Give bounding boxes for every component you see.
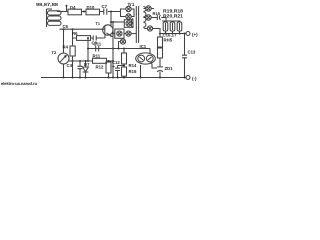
capacitor C9	[92, 36, 98, 46]
wire vertical bus x113	[112, 22, 114, 78]
svg-text:R15: R15	[129, 69, 137, 74]
transistor T1	[96, 12, 114, 37]
svg-text:R19,R18: R19,R18	[163, 8, 183, 13]
wire primary feed	[121, 9, 126, 17]
node junction rail2-R6	[72, 28, 74, 30]
resistor R11	[93, 54, 107, 64]
node junction mid rail x124	[123, 48, 125, 50]
wire fuse feed	[113, 33, 115, 35]
transformer primary terminal P2	[126, 14, 131, 19]
node junction x80 y60	[79, 60, 81, 62]
transformer terminal P5	[126, 31, 131, 36]
transistor T2	[52, 50, 70, 64]
svg-text:T2: T2	[52, 50, 57, 55]
node dots on plus rail	[159, 33, 186, 35]
wire T2 bottom	[63, 64, 65, 78]
resistor R16	[158, 47, 163, 58]
capacitor bank C21	[177, 22, 182, 31]
svg-text:R14: R14	[129, 63, 137, 68]
resistor D10	[86, 5, 100, 15]
svg-text:C6: C6	[63, 24, 69, 29]
capacitor C4	[67, 61, 83, 78]
node junction x113 y47.5	[112, 48, 114, 50]
node junction x88 y60	[87, 60, 89, 62]
resistor RH5	[158, 34, 173, 48]
wire S2 to cap	[144, 17, 158, 19]
transformer primary terminal P3	[126, 21, 131, 26]
node dots on bottom rail	[63, 77, 186, 79]
wire R6 branch	[73, 29, 106, 38]
transformer core	[136, 6, 138, 43]
capacitor C7	[102, 4, 108, 15]
capacitor C11	[94, 42, 102, 52]
capacitor bank C19	[163, 22, 168, 31]
transformer secondary terminal S1	[146, 6, 151, 11]
node junction x124 y65.5	[123, 65, 125, 67]
svg-text:98,87,88: 98,87,88	[36, 2, 59, 7]
fuse box with terminal	[115, 29, 124, 38]
transformer secondary terminal S2	[146, 15, 151, 20]
svg-text:R20,R21: R20,R21	[163, 14, 183, 19]
capacitor C14 polarized	[157, 15, 160, 20]
wire T1 collector to tap box	[111, 21, 124, 23]
svg-text:C12: C12	[112, 60, 120, 65]
capacitor C12	[112, 60, 121, 78]
capacitor ZD1 polarized	[157, 58, 173, 78]
svg-text:(-): (-)	[192, 76, 197, 81]
svg-text:R18: R18	[153, 11, 161, 16]
wire rectifier top rail	[162, 21, 181, 22]
terminal output minus	[186, 76, 197, 81]
wire x88 branch	[87, 38, 89, 61]
transformer secondary winding arcs	[143, 7, 146, 28]
node junction x113 y61	[112, 60, 114, 62]
svg-text:C11: C11	[94, 42, 102, 47]
node stub A	[66, 5, 68, 12]
transformer tap selector box	[124, 20, 133, 28]
wire P6 to mid bus	[119, 42, 121, 49]
resistor R6	[72, 31, 91, 41]
wire cap to rect top rail	[161, 18, 166, 22]
node junction top rail x84	[83, 11, 85, 13]
svg-text:RH5: RH5	[164, 38, 173, 43]
transformer secondary terminal S3	[147, 26, 152, 31]
node junction mid rail x88	[87, 48, 89, 50]
terminal in fuse box	[117, 31, 122, 36]
transformer primary terminal P1	[126, 6, 131, 11]
node junction mid rail x118.5	[118, 48, 120, 50]
node junction rail2-T2	[63, 28, 65, 30]
wire bottom rail	[41, 77, 186, 79]
wire mid rail	[88, 49, 150, 54]
svg-text:R4: R4	[63, 44, 69, 49]
inductor L1	[47, 9, 62, 27]
svg-text:C7: C7	[102, 4, 108, 9]
resistor D4	[68, 5, 82, 15]
svg-text:D7: D7	[84, 62, 90, 67]
diode D7	[83, 60, 91, 78]
resistor R15	[122, 67, 137, 78]
op-amp IC1 dual lamp	[136, 53, 157, 78]
resistor R4	[63, 38, 76, 78]
node junction x72.5 y60	[72, 60, 74, 62]
wire top rail	[57, 9, 126, 12]
resistor R12	[96, 60, 112, 78]
svg-text:T1: T1	[96, 22, 100, 26]
resistor R14	[122, 49, 137, 68]
node junction x113 top	[112, 21, 114, 23]
wire rectifier bottom rail	[160, 31, 186, 34]
svg-text:elektro-ua.narod.ru: elektro-ua.narod.ru	[1, 81, 37, 86]
transformer primary winding arcs	[131, 19, 133, 28]
transformer terminal P6	[120, 39, 125, 44]
wire P5 stubs	[124, 33, 137, 35]
capacitor C13	[182, 34, 196, 78]
wire second rail	[60, 28, 105, 30]
capacitor bank C20	[170, 22, 175, 31]
wire lower rail T2 to R11	[69, 60, 113, 62]
svg-text:C4: C4	[67, 63, 73, 68]
wire S3 feed	[144, 27, 161, 33]
svg-text:ZD1: ZD1	[165, 66, 174, 71]
svg-text:(+): (+)	[192, 32, 198, 37]
node junction x88 y38	[87, 37, 89, 39]
svg-text:R12: R12	[96, 64, 104, 69]
wire S1 stub	[144, 8, 155, 10]
wire R14 R15 junction	[118, 64, 125, 67]
wire T2 top	[63, 29, 65, 53]
node junction x113 y33.5	[112, 33, 114, 35]
terminal output plus	[186, 32, 198, 38]
svg-text:R6: R6	[72, 31, 78, 36]
wire primary link bracket	[131, 9, 134, 17]
svg-text:C13: C13	[188, 50, 196, 55]
